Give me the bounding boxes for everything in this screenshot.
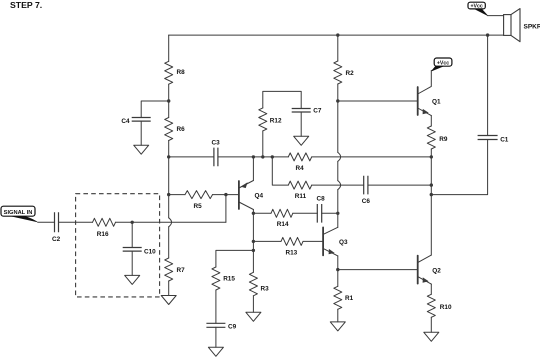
ground C4 [134,145,149,154]
junction rail/C1 [486,33,489,36]
capacitor C2 [55,212,59,232]
wire C1 bottom link [431,140,487,195]
svg-text:R15: R15 [223,275,235,282]
wire C2 to R16 [59,221,93,223]
svg-text:SPKR: SPKR [524,23,540,30]
svg-text:R1: R1 [345,295,354,302]
wire R15 branch [216,250,254,267]
wire R2 top lead [337,35,339,61]
svg-text:R8: R8 [177,69,186,76]
svg-text:R14: R14 [277,221,289,228]
wire column I with hops [337,101,339,152]
junction C1 node [430,193,433,196]
wire node to C3 [169,156,214,158]
wire R9 bottom lead [430,149,432,157]
junction R12 bottom [261,155,264,158]
wire C7 to ground [300,112,302,136]
ground C10 [125,275,140,284]
wire Q1 collector [418,70,432,94]
ground R1 [330,322,345,331]
speaker SPKR [504,15,511,36]
resistor R16 [93,218,116,226]
resistor R5 [185,191,213,199]
wire C10 to ground [131,251,133,275]
resistor R11 [288,181,311,189]
wire column M [430,157,432,255]
wire R5 to jog [213,194,226,196]
wire C4 to ground [140,121,142,145]
svg-text:C10: C10 [144,249,156,256]
power +Vcc (top right) [468,2,485,9]
wire R3 to ground [252,296,254,313]
svg-text:Q1: Q1 [432,99,441,106]
wire C4 branch [141,101,169,118]
resistor R6 [165,118,173,141]
resistor R12 [259,108,267,131]
wire Q4 base [226,194,239,196]
svg-text:STEP 7.: STEP 7. [10,0,42,10]
wire C9 to ground [215,327,217,347]
capacitor C4 [132,118,151,122]
wire R11 to C6 [312,184,364,186]
resistor R3 [249,272,257,296]
resistor R15 [212,267,220,290]
wire Q1 base [338,100,418,102]
boundary dashed block [76,194,160,297]
wire column E [252,213,254,272]
junction Q3 emitter node [336,268,339,271]
wire R15 to C9 [215,290,217,323]
resistor R2 [334,61,342,84]
wire C6 to node [368,184,431,186]
ground C7 [294,136,309,145]
wire R4 to R9 node [312,156,432,158]
wire C8 to column [322,212,338,214]
wire C3 to R4 row [218,156,288,158]
capacitor C6 [364,176,368,195]
wire Q4 emitter up [252,157,254,181]
svg-text:+Vcc: +Vcc [437,60,449,66]
resistor R10 [427,294,435,317]
wire R16 to jog [116,221,226,223]
svg-text:C6: C6 [362,198,371,205]
wire R12-C7 top link [263,91,301,108]
junction R15 node [252,249,255,252]
svg-text:R10: R10 [440,304,452,311]
wire C1 top lead [487,35,489,135]
svg-text:C1: C1 [500,136,509,143]
resistor R4 [288,153,311,161]
svg-text:R3: R3 [261,286,270,293]
svg-text:C2: C2 [52,236,61,243]
wire R6 to node [168,141,170,157]
junction C8 node [336,212,339,215]
junction node C3 [167,155,170,158]
svg-text:R4: R4 [296,165,305,172]
junction R11 branch [271,155,274,158]
node SIGNAL IN [1,206,35,216]
resistor R1 [334,286,342,309]
wire top rail [169,34,504,36]
resistor R7 [165,258,173,281]
wire R8 to R6 [168,84,170,117]
wire input to C2 [38,221,55,223]
wire R8 top lead [168,35,170,61]
capacitor C8 [317,204,321,223]
wire Q2 emitter to R10 [430,284,432,294]
svg-text:C3: C3 [212,139,221,146]
wire R13 left lead [253,240,281,242]
svg-text:C8: C8 [317,196,326,203]
capacitor C9 [206,323,225,327]
svg-text:R2: R2 [346,70,355,77]
resistor R8 [165,61,173,84]
transistor Q4 [238,181,240,209]
capacitor C7 [292,109,311,113]
junction C6 node right [430,183,433,186]
wire R1 top lead [337,270,339,287]
resistor R9 [427,126,435,149]
wire R10 to ground [430,317,432,332]
wire R12 bottom lead [262,131,264,157]
capacitor C3 [214,148,218,167]
svg-text:R11: R11 [295,193,307,200]
wire R7 to ground [168,281,170,296]
svg-text:R5: R5 [194,203,203,210]
wire C10 top lead [131,222,133,247]
svg-text:Q4: Q4 [255,193,264,200]
wire Q1 emitter to R9 [430,116,432,126]
svg-text:R9: R9 [439,136,448,143]
svg-text:C4: C4 [121,118,130,125]
wire R14 to C8 [293,212,318,214]
capacitor C1 [478,136,498,140]
resistor R13 [281,237,303,245]
power +Vcc (Q1) [434,58,452,66]
capacitor C10 [123,248,142,252]
svg-text:C7: C7 [313,108,322,115]
ground C9 [208,347,223,356]
svg-text:R12: R12 [270,117,282,124]
wire R5 left lead [169,194,185,196]
svg-text:SIGNAL IN: SIGNAL IN [4,210,33,216]
transistor Q2 [417,256,419,284]
wire Q4 collector down [252,210,254,214]
wire +Vcc to speaker [487,15,503,17]
wire R14 left lead [253,212,271,214]
wire R13 to Q3 [303,240,323,242]
svg-text:Q2: Q2 [432,267,441,274]
junction rail/R2 [336,33,339,36]
junction R13 node [252,240,255,243]
junction Q1 base node [336,99,339,102]
junction C10 node [131,221,134,224]
svg-text:C9: C9 [228,323,237,330]
transistor Q3 [322,227,324,255]
resistor R14 [271,209,293,217]
ground R10 [424,332,439,341]
svg-text:Q3: Q3 [339,239,348,246]
junction R9/R4 node [430,155,433,158]
wire Q2 base [338,269,418,271]
junction Q4 emitter top [252,155,255,158]
junction C4 node [167,99,170,102]
wire base jog down [225,195,227,223]
wire Q3 emitter down [337,256,339,270]
ground R7 [161,296,176,305]
wire R2 to base node [337,84,339,101]
transistor Q1 [417,87,419,115]
svg-text:+Vcc: +Vcc [470,4,482,10]
junction Q4 collector/R14 [252,212,255,215]
wire R1 to ground [337,309,339,322]
junction R5 left [167,193,170,196]
svg-text:R13: R13 [286,250,298,257]
wire R11 up link [272,157,288,185]
svg-text:R16: R16 [97,231,109,238]
junction Q4 base node [224,193,227,196]
ground R3 [246,312,261,321]
svg-text:R7: R7 [177,267,186,274]
wire column A lower with hop [168,157,170,218]
svg-text:R6: R6 [177,126,186,133]
